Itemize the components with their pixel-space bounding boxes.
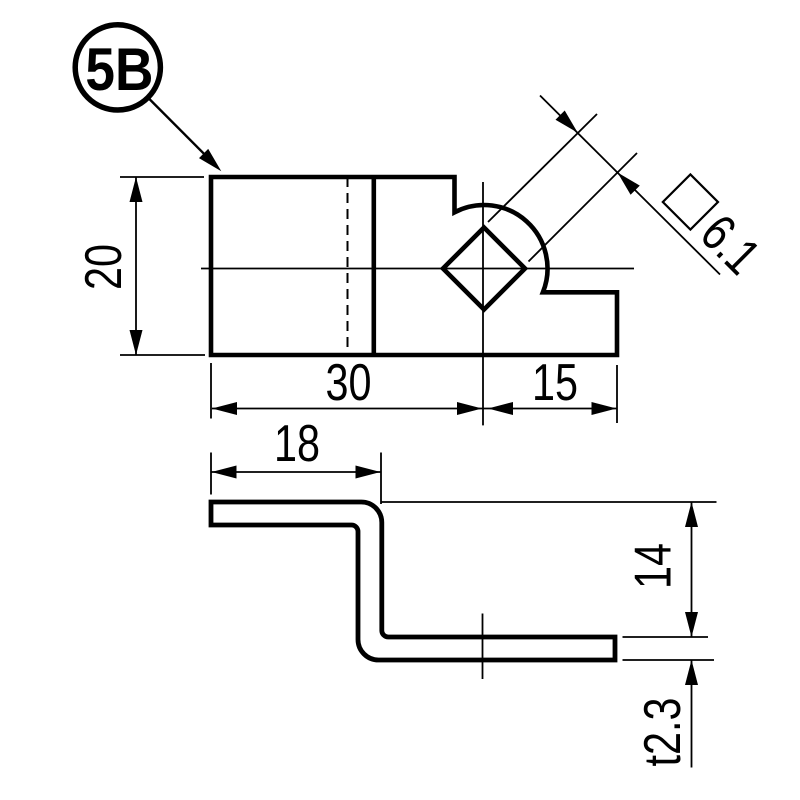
- dim 15 arrow left: [488, 402, 513, 415]
- square hole (diamond): [443, 228, 525, 310]
- svg-text:18: 18: [274, 415, 320, 473]
- dim 14 arrow up: [685, 502, 698, 527]
- top surface extension line: [381, 501, 717, 503]
- dim 6.1 square symbol and text: [654, 169, 770, 285]
- dim 15 arrow right: [592, 402, 617, 415]
- dim 20 extension top: [120, 176, 204, 178]
- svg-text:t2.3: t2.3: [634, 698, 692, 767]
- dim 6.1 arrow upper: [556, 111, 578, 133]
- dim 6.1 extension line 2: [529, 153, 638, 262]
- vertical centerline: [482, 182, 484, 425]
- dim 30 arrow left: [212, 402, 237, 415]
- dim 6.1 dimension line: [540, 96, 720, 275]
- dim 15 right extension: [616, 365, 618, 423]
- dim t2.3 line: [691, 660, 693, 768]
- dim 6.1 extension line 1: [488, 114, 597, 222]
- svg-text:5B: 5B: [85, 36, 153, 103]
- dim 14 arrow down: [685, 612, 698, 637]
- flange bottom extension line: [623, 659, 715, 661]
- dim 30/15 line: [212, 408, 617, 410]
- leader line from balloon: [148, 98, 205, 155]
- flange top extension line: [623, 636, 709, 638]
- svg-text:20: 20: [75, 244, 133, 290]
- side view Z profile: [211, 502, 615, 660]
- hidden bend line (dashed): [347, 177, 349, 355]
- dim 30 arrow right: [457, 402, 482, 415]
- dim 20 line: [135, 177, 137, 355]
- side view centerline: [482, 614, 484, 680]
- bend edge line (solid): [371, 177, 376, 355]
- dim 18 left extension: [210, 453, 212, 495]
- dim 20 arrow up: [130, 177, 143, 202]
- dim 18 line: [212, 471, 381, 473]
- dim t2.3 arrow up: [685, 660, 698, 685]
- dim 20 extension bottom: [120, 354, 205, 356]
- horizontal centerline: [201, 268, 634, 270]
- svg-text:14: 14: [625, 543, 683, 589]
- svg-text:15: 15: [532, 354, 578, 412]
- dim 18 right extension: [380, 453, 382, 505]
- dim 14 line: [691, 502, 693, 637]
- leader arrowhead: [199, 149, 221, 171]
- top view outline: [211, 177, 617, 355]
- balloon 5B circle: [75, 25, 160, 110]
- dim 30 left extension: [210, 363, 212, 419]
- dim 18 arrow right: [356, 466, 381, 479]
- dim 20 arrow down: [130, 330, 143, 355]
- dim 6.1 arrow lower: [618, 173, 640, 195]
- svg-text:30: 30: [326, 354, 372, 412]
- dim 18 arrow left: [212, 466, 237, 479]
